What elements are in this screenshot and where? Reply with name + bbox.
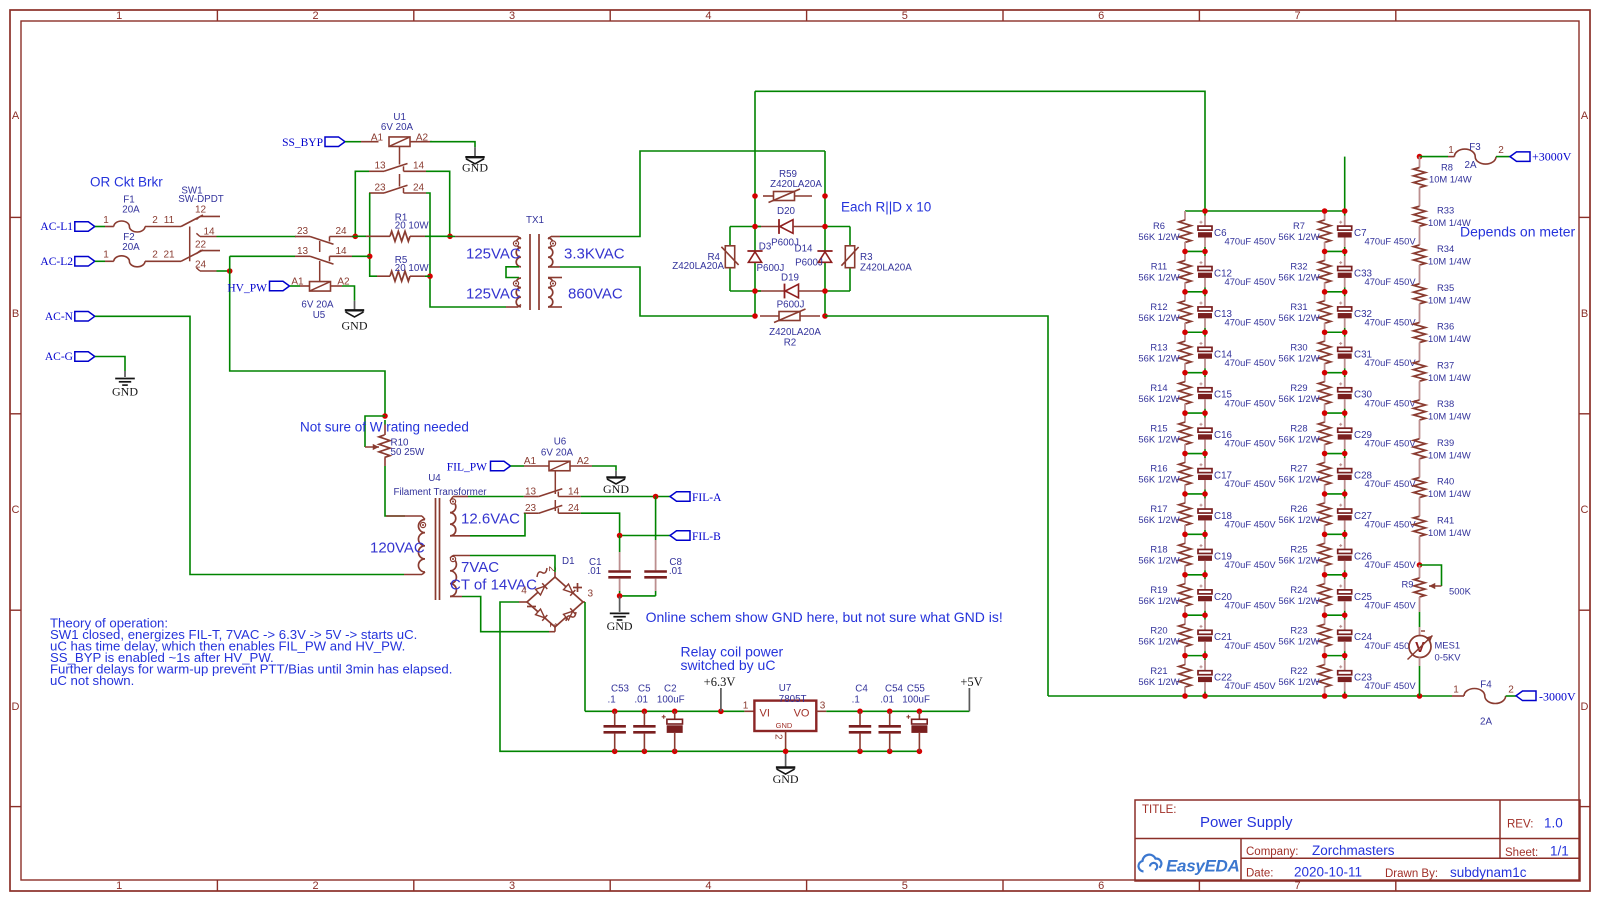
svg-text:2: 2 [313,880,319,892]
svg-text:A: A [12,110,20,122]
svg-text:Z420LA20A: Z420LA20A [770,179,822,190]
svg-text:56K 1/2W: 56K 1/2W [1278,312,1319,323]
svg-text:6V 20A: 6V 20A [541,447,574,458]
svg-text:56K 1/2W: 56K 1/2W [1278,393,1319,404]
svg-text:GND: GND [607,619,633,633]
svg-text:14: 14 [568,486,580,497]
svg-text:subdynam1c: subdynam1c [1450,865,1527,880]
svg-text:14: 14 [203,227,215,238]
svg-text:2: 2 [1508,685,1514,696]
svg-text:56K 1/2W: 56K 1/2W [1138,676,1179,687]
svg-text:6V 20A: 6V 20A [381,122,414,133]
svg-text:56K 1/2W: 56K 1/2W [1278,231,1319,242]
svg-text:Date:: Date: [1246,868,1274,880]
svg-text:56K 1/2W: 56K 1/2W [1138,514,1179,525]
svg-text:24: 24 [335,226,347,237]
svg-text:Z420LA20A: Z420LA20A [672,261,724,272]
svg-text:Not sure of W rating needed: Not sure of W rating needed [300,420,469,435]
svg-text:R24: R24 [1290,584,1307,595]
svg-text:P600J: P600J [795,258,823,269]
svg-text:11: 11 [164,215,175,226]
svg-text:470uF 450V: 470uF 450V [1225,438,1277,449]
svg-text:120VAC: 120VAC [370,539,425,556]
svg-text:P600J: P600J [777,300,805,311]
svg-text:470uF 450V: 470uF 450V [1225,478,1277,489]
svg-text:Each R||D x 10: Each R||D x 10 [841,200,931,215]
svg-text:56K 1/2W: 56K 1/2W [1138,352,1179,363]
svg-text:C55: C55 [907,684,926,695]
svg-text:R30: R30 [1290,341,1307,352]
svg-text:56K 1/2W: 56K 1/2W [1278,474,1319,485]
svg-text:10M 1/4W: 10M 1/4W [1428,372,1471,383]
svg-text:AC-L1: AC-L1 [40,221,73,233]
svg-text:13: 13 [525,486,537,497]
svg-text:3: 3 [509,10,515,22]
svg-text:56K 1/2W: 56K 1/2W [1138,555,1179,566]
svg-text:56K 1/2W: 56K 1/2W [1278,676,1319,687]
svg-text:Z420LA20A: Z420LA20A [860,262,912,273]
svg-text:56K 1/2W: 56K 1/2W [1138,312,1179,323]
svg-text:56K 1/2W: 56K 1/2W [1138,272,1179,283]
svg-text:14: 14 [335,246,347,257]
svg-text:R6: R6 [1153,220,1165,231]
svg-text:.01: .01 [588,566,602,577]
svg-text:470uF 450V: 470uF 450V [1225,680,1277,691]
svg-text:6: 6 [1098,880,1104,892]
svg-text:1: 1 [547,622,558,628]
svg-text:470uF 450V: 470uF 450V [1225,599,1277,610]
svg-text:7: 7 [1295,880,1301,892]
svg-text:D: D [1581,701,1589,713]
svg-text:R8: R8 [1441,162,1453,173]
svg-text:B: B [1581,308,1588,320]
svg-text:4: 4 [521,586,527,597]
svg-text:2020-10-11: 2020-10-11 [1294,865,1362,880]
svg-text:56K 1/2W: 56K 1/2W [1138,433,1179,444]
svg-text:R14: R14 [1150,382,1167,393]
svg-text:500K: 500K [1449,585,1472,596]
svg-text:C53: C53 [611,684,630,695]
svg-text:Online schem show GND here, bu: Online schem show GND here, but not sure… [646,609,1003,625]
svg-text:3.3KVAC: 3.3KVAC [564,245,625,262]
svg-text:R40: R40 [1437,476,1454,487]
svg-text:F4: F4 [1480,680,1492,691]
svg-text:6: 6 [1098,10,1104,22]
svg-text:B: B [12,308,19,320]
svg-text:21: 21 [163,250,175,261]
svg-text:1: 1 [116,10,122,22]
svg-text:A2: A2 [416,133,429,144]
svg-text:56K 1/2W: 56K 1/2W [1278,595,1319,606]
svg-text:470uF 450V: 470uF 450V [1365,599,1417,610]
svg-text:56K 1/2W: 56K 1/2W [1138,595,1179,606]
svg-text:C5: C5 [638,684,651,695]
svg-text:FIL-A: FIL-A [692,492,722,504]
svg-text:A2: A2 [577,456,590,467]
svg-text:125VAC: 125VAC [466,245,521,262]
svg-text:56K 1/2W: 56K 1/2W [1278,272,1319,283]
svg-text:.01: .01 [880,694,894,705]
svg-text:R41: R41 [1437,514,1454,525]
svg-text:GND: GND [112,384,138,398]
svg-text:14: 14 [413,161,425,172]
svg-text:R25: R25 [1290,544,1307,555]
svg-text:1: 1 [1448,145,1454,156]
svg-text:1.0: 1.0 [1544,816,1563,831]
svg-text:10M 1/4W: 10M 1/4W [1428,333,1471,344]
svg-text:GND: GND [773,772,799,786]
svg-text:U7: U7 [779,683,792,694]
svg-text:2A: 2A [1465,160,1477,171]
svg-text:10M 1/4W: 10M 1/4W [1429,174,1472,185]
svg-text:1: 1 [116,880,122,892]
svg-text:470uF 450V: 470uF 450V [1365,680,1417,691]
svg-text:R31: R31 [1290,301,1307,312]
svg-text:22: 22 [195,239,207,250]
svg-text:R19: R19 [1150,584,1167,595]
svg-text:R17: R17 [1150,503,1167,514]
svg-text:R29: R29 [1290,382,1307,393]
svg-text:D1: D1 [562,556,575,567]
svg-text:TITLE:: TITLE: [1142,804,1177,816]
svg-text:R39: R39 [1437,437,1454,448]
svg-text:2A: 2A [1480,717,1492,728]
svg-text:10M 1/4W: 10M 1/4W [1428,411,1471,422]
svg-text:470uF 450V: 470uF 450V [1225,236,1277,247]
svg-text:24: 24 [195,260,207,271]
svg-text:R12: R12 [1150,301,1167,312]
svg-text:2: 2 [152,250,158,261]
svg-text:R13: R13 [1150,341,1167,352]
svg-text:+6.3V: +6.3V [704,675,736,689]
svg-text:C: C [1581,504,1589,516]
svg-text:2: 2 [1498,145,1504,156]
svg-text:HV_PW: HV_PW [227,282,267,294]
svg-text:GND: GND [342,318,368,332]
svg-text:50 25W: 50 25W [391,447,426,458]
svg-text:10M 1/4W: 10M 1/4W [1428,527,1471,538]
svg-text:uC not shown.: uC not shown. [50,673,134,688]
svg-text:470uF 450V: 470uF 450V [1365,316,1417,327]
svg-text:470uF 450V: 470uF 450V [1365,276,1417,287]
svg-text:7: 7 [1295,10,1301,22]
svg-text:R21: R21 [1150,665,1167,676]
svg-text:470uF 450V: 470uF 450V [1225,397,1277,408]
svg-text:R28: R28 [1290,422,1307,433]
svg-text:470uF 450V: 470uF 450V [1225,276,1277,287]
svg-text:Company:: Company: [1246,846,1298,858]
svg-text:10M 1/4W: 10M 1/4W [1428,488,1471,499]
svg-text:GND: GND [462,160,488,174]
svg-text:A: A [1581,110,1589,122]
svg-text:R2: R2 [784,337,797,348]
svg-text:R18: R18 [1150,544,1167,555]
svg-text:4: 4 [705,10,711,22]
svg-text:470uF 450V: 470uF 450V [1365,357,1417,368]
svg-text:.1: .1 [852,694,860,705]
svg-text:100uF: 100uF [657,694,685,705]
svg-text:OR Ckt Brkr: OR Ckt Brkr [90,174,163,189]
svg-text:470uF 450V: 470uF 450V [1365,236,1417,247]
svg-text:A2: A2 [337,277,350,288]
svg-text:13: 13 [374,161,386,172]
svg-text:56K 1/2W: 56K 1/2W [1278,514,1319,525]
svg-text:VO: VO [794,708,810,720]
svg-text:D: D [12,701,20,713]
svg-text:TX1: TX1 [526,215,544,226]
svg-text:R33: R33 [1437,204,1454,215]
svg-text:AC-N: AC-N [45,311,74,323]
svg-text:23: 23 [374,183,386,194]
svg-text:R26: R26 [1290,503,1307,514]
svg-text:2: 2 [773,734,784,740]
svg-text:56K 1/2W: 56K 1/2W [1278,635,1319,646]
svg-text:R20: R20 [1150,624,1167,635]
svg-text:470uF 450V: 470uF 450V [1225,640,1277,651]
svg-text:R34: R34 [1437,243,1454,254]
svg-text:R35: R35 [1437,282,1454,293]
svg-text:470uF 450V: 470uF 450V [1365,519,1417,530]
svg-text:R22: R22 [1290,665,1307,676]
svg-text:D19: D19 [781,273,799,284]
svg-text:3: 3 [509,880,515,892]
svg-text:R16: R16 [1150,463,1167,474]
svg-text:24: 24 [568,503,580,514]
svg-text:12.6VAC: 12.6VAC [461,511,520,528]
svg-text:Power Supply: Power Supply [1200,814,1293,831]
svg-text:-3000V: -3000V [1539,690,1576,704]
svg-text:20 10W: 20 10W [395,221,430,232]
svg-text:VI: VI [760,708,770,720]
svg-text:20 10W: 20 10W [395,263,430,274]
svg-text:470uF 450V: 470uF 450V [1225,357,1277,368]
svg-text:23: 23 [525,503,537,514]
svg-text:GND: GND [776,721,793,730]
svg-text:AC-G: AC-G [45,351,73,363]
svg-text:Zorchmasters: Zorchmasters [1312,843,1395,858]
svg-text:Drawn By:: Drawn By: [1385,868,1438,880]
svg-text:D3: D3 [759,242,772,253]
svg-text:R32: R32 [1290,261,1307,272]
svg-text:A1: A1 [524,456,537,467]
svg-text:5: 5 [902,10,908,22]
svg-text:2: 2 [152,215,158,226]
svg-text:56K 1/2W: 56K 1/2W [1278,555,1319,566]
svg-text:SS_BYP: SS_BYP [282,137,323,149]
svg-text:EasyEDA: EasyEDA [1166,857,1240,876]
svg-text:R3: R3 [860,252,873,263]
svg-text:C54: C54 [885,684,904,695]
svg-text:13: 13 [297,246,309,257]
svg-text:AC-L2: AC-L2 [40,256,73,268]
svg-text:24: 24 [413,183,425,194]
svg-text:20A: 20A [122,242,140,253]
svg-text:5: 5 [902,880,908,892]
svg-text:.01: .01 [669,566,683,577]
svg-text:U4: U4 [428,473,441,484]
svg-text:470uF 450V: 470uF 450V [1365,397,1417,408]
svg-text:23: 23 [297,226,309,237]
svg-text:C2: C2 [664,684,677,695]
svg-text:860VAC: 860VAC [568,285,623,302]
svg-text:1: 1 [743,700,749,711]
svg-text:1: 1 [103,250,109,261]
svg-text:2: 2 [313,10,319,22]
svg-text:R27: R27 [1290,463,1307,474]
svg-text:0-5KV: 0-5KV [1435,651,1462,662]
svg-text:56K 1/2W: 56K 1/2W [1278,352,1319,363]
svg-text:470uF 450V: 470uF 450V [1225,519,1277,530]
svg-text:A1: A1 [371,133,384,144]
svg-text:+3000V: +3000V [1532,150,1572,164]
svg-text:Depends on meter: Depends on meter [1460,224,1576,240]
svg-text:Z420LA20A: Z420LA20A [769,327,821,338]
svg-text:FIL-B: FIL-B [692,531,721,543]
svg-text:56K 1/2W: 56K 1/2W [1138,474,1179,485]
svg-text:R37: R37 [1437,359,1454,370]
svg-text:7805T: 7805T [779,694,807,705]
svg-text:R11: R11 [1151,261,1168,272]
svg-text:470uF 450V: 470uF 450V [1365,559,1417,570]
svg-text:1: 1 [1453,685,1459,696]
svg-text:C4: C4 [855,684,868,695]
svg-text:4: 4 [705,880,711,892]
svg-text:3: 3 [588,589,594,600]
svg-text:Sheet:: Sheet: [1505,847,1538,859]
svg-text:D20: D20 [777,206,796,217]
svg-text:R36: R36 [1437,321,1454,332]
svg-text:switched by uC: switched by uC [681,657,776,673]
svg-text:D14: D14 [795,244,814,255]
svg-text:R23: R23 [1290,624,1307,635]
svg-text:R7: R7 [1293,220,1305,231]
svg-text:+5V: +5V [960,675,982,689]
svg-text:C: C [12,504,20,516]
svg-text:10M 1/4W: 10M 1/4W [1428,294,1471,305]
svg-text:1: 1 [103,215,109,226]
svg-text:1/1: 1/1 [1550,844,1569,859]
svg-text:10M 1/4W: 10M 1/4W [1428,256,1471,267]
svg-text:470uF 450V: 470uF 450V [1365,478,1417,489]
svg-text:GND: GND [603,482,629,496]
svg-text:470uF 450V: 470uF 450V [1225,559,1277,570]
svg-text:U5: U5 [313,310,326,321]
svg-text:125VAC: 125VAC [466,285,521,302]
svg-text:.1: .1 [608,694,616,705]
svg-text:MES1: MES1 [1435,639,1461,650]
svg-text:R38: R38 [1437,398,1454,409]
svg-text:6V 20A: 6V 20A [301,299,334,310]
svg-text:470uF 450V: 470uF 450V [1225,316,1277,327]
svg-text:.01: .01 [634,694,648,705]
svg-text:SW-DPDT: SW-DPDT [178,194,224,205]
svg-text:56K 1/2W: 56K 1/2W [1138,635,1179,646]
svg-text:100uF: 100uF [902,694,930,705]
svg-text:P600J: P600J [757,263,785,274]
svg-text:12: 12 [195,204,207,215]
svg-text:FIL_PW: FIL_PW [447,461,487,473]
svg-text:F3: F3 [1469,142,1481,153]
svg-text:10M 1/4W: 10M 1/4W [1428,449,1471,460]
svg-text:U6: U6 [554,436,567,447]
svg-text:56K 1/2W: 56K 1/2W [1278,433,1319,444]
svg-text:56K 1/2W: 56K 1/2W [1138,231,1179,242]
svg-text:R15: R15 [1150,422,1167,433]
svg-text:20A: 20A [122,205,140,216]
svg-text:3: 3 [820,700,826,711]
svg-text:7VAC: 7VAC [461,559,499,576]
svg-text:56K 1/2W: 56K 1/2W [1138,393,1179,404]
svg-text:470uF 450V: 470uF 450V [1365,438,1417,449]
svg-text:REV:: REV: [1507,819,1533,831]
svg-text:A1: A1 [291,277,304,288]
svg-text:R9: R9 [1402,579,1414,590]
